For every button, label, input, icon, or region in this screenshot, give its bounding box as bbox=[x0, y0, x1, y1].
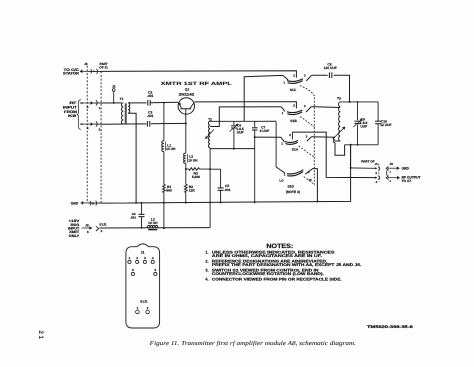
pin row3 (J6 pin 4 / J1 pin 2) bbox=[80, 123, 93, 125]
svg-text:S1J1: S1J1 bbox=[140, 300, 148, 304]
svg-text:21: 21 bbox=[37, 330, 44, 340]
wire row3 through T1 to C3 and Q1 base bbox=[101, 123, 147, 125]
svg-text:ONLY: ONLY bbox=[69, 234, 80, 238]
switch S1A bbox=[285, 140, 298, 142]
svg-text:3: 3 bbox=[375, 171, 377, 175]
svg-text:560: 560 bbox=[166, 189, 172, 193]
svg-text:J2: J2 bbox=[112, 85, 116, 89]
svg-text:XMTR 1ST RF AMPL: XMTR 1ST RF AMPL bbox=[161, 81, 232, 86]
svg-text:GRD: GRD bbox=[71, 202, 79, 206]
wire T3 bottom to ground bus bbox=[350, 145, 352, 168]
svg-text:8 UUF: 8 UUF bbox=[260, 129, 270, 133]
svg-text:.001: .001 bbox=[147, 94, 154, 98]
brace RF input bbox=[77, 100, 81, 130]
svg-text:3: 3 bbox=[144, 256, 146, 260]
svg-text:1: 1 bbox=[129, 256, 131, 260]
svg-text:TO A7: TO A7 bbox=[402, 179, 412, 183]
svg-text:S1B: S1B bbox=[290, 119, 297, 123]
svg-text:J1: J1 bbox=[375, 162, 379, 166]
svg-text:UUF: UUF bbox=[360, 124, 367, 128]
svg-text:K9: K9 bbox=[68, 114, 76, 118]
svg-text:2: 2 bbox=[293, 104, 295, 108]
svg-text:.001: .001 bbox=[224, 188, 231, 192]
svg-text:2: 2 bbox=[293, 73, 295, 77]
svg-text:T1: T1 bbox=[120, 97, 124, 101]
svg-text:PART OF: PART OF bbox=[361, 160, 374, 164]
svg-text:4: 4 bbox=[87, 126, 89, 130]
svg-text:ARE IN OHMS, CAPACITANCES ARE: ARE IN OHMS, CAPACITANCES ARE IN UF. bbox=[212, 254, 322, 258]
wire T2 box bottom bbox=[210, 148, 255, 150]
svg-text:2: 2 bbox=[289, 133, 291, 137]
svg-text:COUNTERCLOCKWISE ROTATION (LOW: COUNTERCLOCKWISE ROTATION (LOW BAND). bbox=[212, 272, 324, 276]
wire ground bus (line A) bbox=[101, 145, 350, 203]
wire S1C pos3 to C8 bbox=[312, 74, 328, 76]
svg-text:3: 3 bbox=[306, 135, 308, 139]
wire row2 to T1 bbox=[101, 102, 122, 104]
svg-text:12 UUF: 12 UUF bbox=[380, 123, 391, 127]
svg-text:6: 6 bbox=[154, 268, 156, 272]
svg-text:5,600: 5,600 bbox=[192, 175, 200, 179]
svg-text:1: 1 bbox=[283, 80, 285, 84]
svg-text:T2: T2 bbox=[208, 117, 212, 121]
switch S1C bbox=[287, 79, 303, 82]
svg-text:.001: .001 bbox=[147, 114, 154, 118]
node GRD output bbox=[388, 167, 400, 169]
svg-text:GRD: GRD bbox=[402, 166, 410, 170]
svg-text:2N1142: 2N1142 bbox=[179, 92, 194, 96]
svg-text:(NOTE 3): (NOTE 3) bbox=[286, 190, 300, 194]
svg-text:2: 2 bbox=[136, 256, 138, 260]
svg-text:1: 1 bbox=[284, 173, 286, 177]
svg-text:1: 1 bbox=[99, 106, 101, 110]
svg-text:10 UH: 10 UH bbox=[188, 158, 198, 162]
wire +10V bus (line B) bbox=[99, 227, 210, 229]
connector J6 (dashed line) bbox=[86, 66, 88, 203]
svg-text:2: 2 bbox=[99, 127, 101, 131]
wire S1C pos1 from T2 top bbox=[244, 75, 283, 121]
svg-text:5: 5 bbox=[87, 105, 89, 109]
svg-text:2: 2 bbox=[101, 229, 103, 233]
wire S1A pos2 to RF output pin bbox=[292, 132, 376, 178]
svg-text:UUF: UUF bbox=[237, 130, 244, 134]
connector J1 receptacle drawing bbox=[126, 244, 160, 328]
svg-text:3: 3 bbox=[304, 73, 306, 77]
svg-text:10 UH: 10 UH bbox=[148, 221, 158, 225]
pin row1 J6/J1 mating pins bbox=[91, 69, 92, 73]
svg-text:1: 1 bbox=[137, 306, 139, 310]
svg-text:Q1: Q1 bbox=[185, 87, 190, 91]
svg-text:S1J1: S1J1 bbox=[99, 223, 107, 227]
T3 coupling link bbox=[335, 140, 340, 142]
svg-text:8: 8 bbox=[390, 180, 392, 183]
svg-text:1: 1 bbox=[281, 141, 283, 145]
svg-text:STATOR: STATOR bbox=[63, 72, 79, 76]
wire top rail from J1 to S1C pos 2 bbox=[101, 71, 296, 78]
svg-text:3.: 3. bbox=[205, 268, 208, 272]
svg-text:5: 5 bbox=[132, 268, 134, 272]
svg-text:6: 6 bbox=[87, 230, 89, 234]
svg-text:J6: J6 bbox=[389, 162, 393, 166]
svg-text:J1: J1 bbox=[141, 251, 145, 255]
svg-text:NOTES:: NOTES: bbox=[266, 243, 293, 250]
wire S1A pos1 from C7 bbox=[255, 137, 284, 141]
svg-text:LO: LO bbox=[279, 179, 284, 183]
wire S1B pos3 to T3 bbox=[311, 106, 340, 109]
switch gang dashed linkage bbox=[300, 86, 315, 185]
svg-text:CONNECTOR VIEWED FROM PIN OR R: CONNECTOR VIEWED FROM PIN OR RECEPTACLE … bbox=[212, 277, 342, 281]
wire S1A pos3 to T3 link bbox=[312, 136, 336, 138]
svg-text:S1A: S1A bbox=[292, 148, 299, 152]
svg-text:S1C: S1C bbox=[290, 88, 297, 92]
switch S1D bbox=[275, 121, 277, 167]
svg-text:4: 4 bbox=[376, 180, 378, 184]
svg-text:.001: .001 bbox=[130, 215, 136, 219]
svg-text:3: 3 bbox=[304, 104, 306, 108]
svg-text:110 UUF: 110 UUF bbox=[324, 66, 337, 70]
svg-text:1: 1 bbox=[390, 170, 392, 173]
connector J1 (dashed line) bbox=[100, 71, 102, 203]
wire T3 box bottom bbox=[345, 144, 379, 146]
svg-text:4.: 4. bbox=[205, 277, 208, 281]
svg-text:TM5820-398-35-8: TM5820-398-35-8 bbox=[367, 325, 413, 329]
svg-text:2: 2 bbox=[147, 306, 149, 310]
svg-text:J5: J5 bbox=[85, 223, 89, 227]
svg-text:J6: J6 bbox=[84, 62, 88, 66]
svg-text:1: 1 bbox=[282, 111, 284, 115]
svg-text:INPUT: INPUT bbox=[63, 106, 78, 110]
svg-text:1.: 1. bbox=[205, 250, 208, 254]
svg-text:PREFIX THE PART DESIGNATION WI: PREFIX THE PART DESIGNATION WITH A8, EXC… bbox=[212, 263, 362, 267]
node RF OUTPUT TO A7 bbox=[388, 177, 400, 179]
wire T1 secondary top to C2 bbox=[128, 102, 146, 104]
svg-text:OF J1: OF J1 bbox=[99, 65, 108, 69]
pin row2 (J6 pin 5 / J1 pin 1) bbox=[80, 102, 93, 104]
svg-text:T3: T3 bbox=[337, 97, 341, 101]
svg-text:10 UH: 10 UH bbox=[166, 147, 176, 151]
wire GRD output row bbox=[351, 167, 375, 169]
svg-text:4: 4 bbox=[152, 256, 154, 260]
switch S1B bbox=[287, 110, 302, 113]
svg-text:12K: 12K bbox=[189, 189, 196, 193]
wire T2 tap to S1B pos1 bbox=[210, 107, 281, 127]
svg-text:2.: 2. bbox=[205, 259, 208, 263]
svg-text:Figure 11. Transmitter first: Figure 11. Transmitter first rf amplifie… bbox=[148, 340, 356, 347]
svg-text:S1D: S1D bbox=[287, 184, 294, 188]
wire Q1 collector to S1B pos2 bbox=[195, 102, 297, 109]
